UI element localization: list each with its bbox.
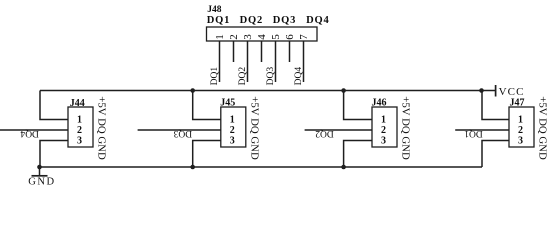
wire VCC riser to J47 pin 1 bbox=[482, 91, 509, 120]
junction dot J46 drop on GND rail bbox=[341, 165, 346, 170]
wire J44 pin 3 to GND rail bbox=[40, 141, 68, 168]
wire J45 pin 3 to GND rail bbox=[193, 141, 221, 168]
VCC rail (top bus wire) bbox=[40, 90, 495, 92]
svg-text:DQ2: DQ2 bbox=[240, 15, 263, 26]
connector J48 designator label bbox=[207, 5, 222, 15]
svg-text:3: 3 bbox=[77, 135, 82, 146]
junction dot J45 drop on GND rail bbox=[190, 165, 195, 170]
svg-text:1: 1 bbox=[518, 114, 523, 125]
wire J48 pin5 down bbox=[275, 41, 277, 82]
wire J48 pin1 down bbox=[219, 41, 221, 82]
connector J46 body bbox=[372, 107, 397, 147]
J47 pin number 2 bbox=[518, 125, 523, 136]
connector J44 body bbox=[68, 107, 93, 147]
wire J48 pin2 stub bbox=[233, 41, 235, 62]
wire VCC riser to J46 pin 1 bbox=[344, 91, 372, 120]
J44 pin number 1 bbox=[77, 114, 82, 125]
VCC power symbol text bbox=[499, 86, 525, 98]
wire J48 pin3 down bbox=[247, 41, 249, 82]
connector J47 body bbox=[509, 107, 534, 147]
J48 pin number 4 bbox=[256, 34, 268, 40]
J46 pin number 1 bbox=[381, 114, 386, 125]
ground symbol stub bbox=[39, 167, 41, 176]
svg-text:+5V DQ GND: +5V DQ GND bbox=[400, 96, 412, 160]
wire J48 pin6 stub bbox=[289, 41, 291, 62]
wire VCC riser to J44 pin 1 bbox=[40, 91, 68, 120]
connector J45 body bbox=[221, 107, 246, 147]
VCC power symbol bar bbox=[495, 85, 497, 97]
svg-text:DQ4: DQ4 bbox=[20, 128, 39, 138]
J48 pin number 1 bbox=[214, 34, 226, 40]
net name DQ1 (top label) bbox=[207, 15, 230, 26]
svg-text:2: 2 bbox=[230, 125, 235, 136]
wire J47 pin 2 net DQ1 bbox=[455, 129, 509, 131]
svg-text:DQ1: DQ1 bbox=[210, 67, 220, 86]
svg-text:J48: J48 bbox=[207, 5, 222, 15]
J45 pin number 2 bbox=[230, 125, 235, 136]
connector J44 designator label bbox=[70, 98, 85, 109]
net label DQ1 (upside down) on J47 pin2 wire bbox=[464, 128, 483, 138]
J45 pin names +5V DQ GND (rotated) bbox=[248, 96, 260, 160]
net label DQ2 (rotated, on pin3 wire) bbox=[238, 67, 248, 86]
J45 pin number 3 bbox=[230, 135, 235, 146]
svg-text:5: 5 bbox=[270, 34, 282, 40]
svg-text:3: 3 bbox=[381, 135, 386, 146]
svg-text:1: 1 bbox=[381, 114, 386, 125]
J44 pin number 3 bbox=[77, 135, 82, 146]
svg-text:6: 6 bbox=[284, 34, 296, 40]
connector J47 designator label bbox=[510, 98, 525, 109]
net label DQ3 (rotated, on pin5 wire) bbox=[266, 67, 276, 86]
J44 pin number 2 bbox=[77, 125, 82, 136]
svg-text:GND: GND bbox=[28, 177, 56, 188]
net label DQ2 (upside down) on J46 pin2 wire bbox=[315, 128, 334, 138]
svg-text:+5V DQ GND: +5V DQ GND bbox=[537, 96, 549, 160]
svg-text:3: 3 bbox=[518, 135, 523, 146]
J45 pin number 1 bbox=[230, 114, 235, 125]
net label DQ4 (upside down) on J44 pin2 wire bbox=[20, 128, 39, 138]
svg-text:1: 1 bbox=[230, 114, 235, 125]
junction dot J47 riser on VCC rail bbox=[479, 88, 484, 93]
J48 pin number 5 bbox=[270, 34, 282, 40]
svg-text:2: 2 bbox=[518, 125, 523, 136]
wire J46 pin 3 to GND rail bbox=[344, 141, 372, 168]
J48 pin number 2 bbox=[228, 34, 240, 40]
wire VCC riser to J45 pin 1 bbox=[193, 91, 221, 120]
net name DQ3 (top label) bbox=[273, 15, 296, 26]
connector J48 body bbox=[207, 27, 318, 41]
svg-text:DQ3: DQ3 bbox=[273, 15, 296, 26]
J46 pin names +5V DQ GND (rotated) bbox=[400, 96, 412, 160]
J48 pin number 6 bbox=[284, 34, 296, 40]
GND rail (bottom bus wire) bbox=[40, 166, 483, 168]
net name DQ4 (top label) bbox=[306, 15, 329, 26]
wire J46 pin 2 net DQ2 bbox=[305, 129, 372, 131]
J47 pin number 3 bbox=[518, 135, 523, 146]
svg-text:DQ1: DQ1 bbox=[464, 128, 483, 138]
svg-text:2: 2 bbox=[228, 34, 240, 40]
net label DQ4 (rotated, on pin7 wire) bbox=[294, 67, 304, 86]
svg-text:DQ3: DQ3 bbox=[266, 67, 276, 86]
svg-text:1: 1 bbox=[77, 114, 82, 125]
J46 pin number 3 bbox=[381, 135, 386, 146]
net label DQ3 (upside down) on J45 pin2 wire bbox=[173, 128, 192, 138]
J46 pin number 2 bbox=[381, 125, 386, 136]
wire J47 pin 3 to GND rail bbox=[482, 141, 509, 168]
J48 pin number 3 bbox=[242, 34, 254, 40]
connector J45 designator label bbox=[220, 98, 235, 109]
svg-text:DQ4: DQ4 bbox=[306, 15, 329, 26]
svg-text:3: 3 bbox=[242, 34, 254, 40]
net name DQ2 (top label) bbox=[240, 15, 263, 26]
svg-text:DQ1: DQ1 bbox=[207, 15, 230, 26]
svg-text:+5V DQ GND: +5V DQ GND bbox=[96, 96, 108, 160]
svg-text:DQ4: DQ4 bbox=[294, 67, 304, 86]
svg-text:DQ2: DQ2 bbox=[238, 67, 248, 86]
junction dot J46 riser on VCC rail bbox=[341, 88, 346, 93]
J47 pin number 1 bbox=[518, 114, 523, 125]
svg-text:1: 1 bbox=[214, 34, 226, 40]
svg-text:DQ3: DQ3 bbox=[173, 128, 192, 138]
J48 pin number 7 bbox=[298, 34, 310, 40]
junction dot J45 riser on VCC rail bbox=[190, 88, 195, 93]
wire J48 pin4 stub bbox=[261, 41, 263, 62]
junction dot GND left on GND rail bbox=[37, 165, 42, 170]
ground symbol text GND bbox=[28, 177, 56, 188]
wire J44 pin 2 net DQ4 bbox=[0, 129, 68, 131]
svg-text:3: 3 bbox=[230, 135, 235, 146]
J47 pin names +5V DQ GND (rotated) bbox=[537, 96, 549, 160]
svg-text:7: 7 bbox=[298, 34, 310, 40]
svg-text:2: 2 bbox=[381, 125, 386, 136]
J44 pin names +5V DQ GND (rotated) bbox=[96, 96, 108, 160]
wire J45 pin 2 net DQ3 bbox=[138, 129, 221, 131]
svg-text:2: 2 bbox=[77, 125, 82, 136]
wire J48 pin7 down bbox=[303, 41, 305, 82]
svg-text:VCC: VCC bbox=[499, 86, 525, 98]
svg-text:DQ2: DQ2 bbox=[315, 128, 334, 138]
svg-text:+5V DQ GND: +5V DQ GND bbox=[248, 96, 260, 160]
net label DQ1 (rotated, on pin1 wire) bbox=[210, 67, 220, 86]
ground symbol bar bbox=[32, 175, 48, 177]
svg-text:4: 4 bbox=[256, 34, 268, 40]
connector J46 designator label bbox=[372, 98, 387, 109]
